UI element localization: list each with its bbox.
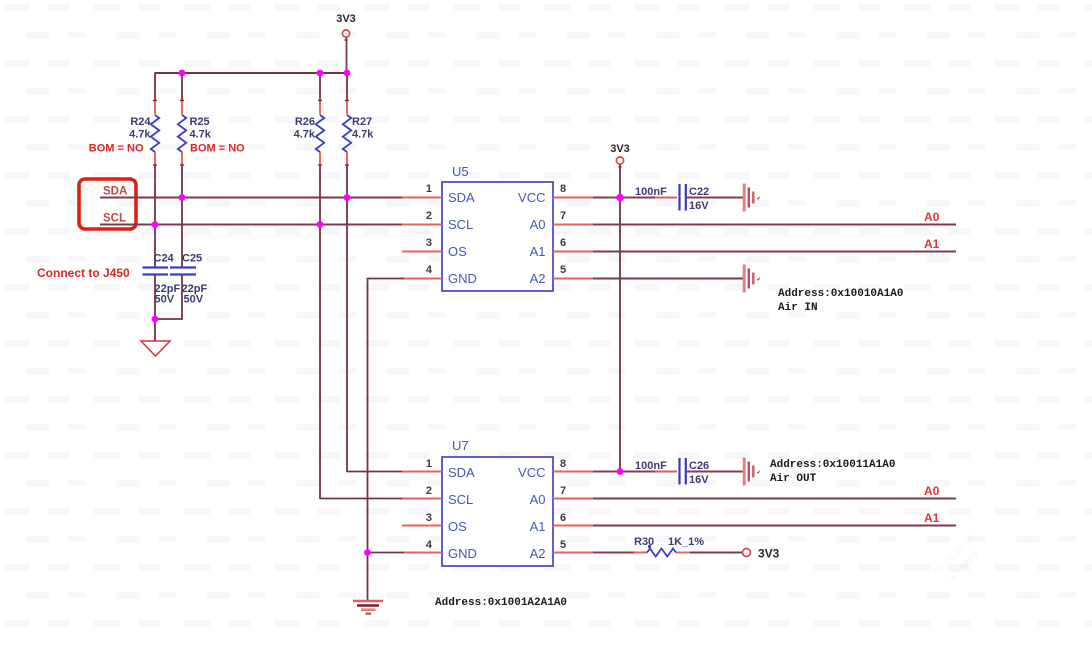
svg-text:A0: A0 — [530, 492, 546, 507]
wire SDA — [100, 197, 402, 199]
wire R25 to SDA — [181, 165, 183, 197]
ground triangle — [141, 341, 170, 356]
svg-text:1: 1 — [426, 458, 432, 470]
pin 4 U7 — [402, 539, 442, 553]
svg-text:Address:0x1001A2A1A0: Address:0x1001A2A1A0 — [435, 597, 567, 609]
wire 3V3 rail vertical — [619, 165, 621, 473]
pin 7 U5 — [553, 210, 593, 225]
svg-text:C25: C25 — [182, 253, 202, 265]
resistor R26 — [294, 101, 325, 166]
node junction SCL R26 — [317, 221, 324, 228]
pin 5 U5 — [553, 264, 593, 279]
svg-text:VCC: VCC — [518, 465, 545, 480]
svg-text:R26: R26 — [295, 116, 315, 128]
wire C24 bottom — [154, 275, 156, 341]
wire U5 GND down — [368, 279, 405, 554]
wire R26 to SCL — [319, 165, 321, 224]
svg-text:3: 3 — [426, 512, 432, 524]
node junction SDA R25 — [179, 194, 186, 201]
node junction U5 VCC 3V3 — [615, 193, 625, 203]
pin 2 U5 — [402, 210, 442, 225]
wire C22 to ground — [687, 197, 743, 199]
wire SCL — [100, 224, 402, 226]
watermark faint — [933, 532, 987, 586]
svg-text:A0: A0 — [530, 217, 546, 232]
svg-text:SDA: SDA — [448, 190, 475, 205]
wire C26 to ground — [687, 471, 743, 473]
pin 8 U5 — [553, 183, 593, 198]
op-amp U7 (I2C temp sensor) — [442, 438, 553, 566]
svg-text:R30: R30 — [634, 536, 654, 548]
svg-text:C22: C22 — [689, 186, 709, 198]
pin 6 U7 — [553, 512, 593, 526]
ground earth bottom — [353, 601, 383, 614]
svg-text:A0: A0 — [924, 484, 940, 498]
svg-text:16V: 16V — [689, 200, 709, 212]
wire U7 A0 — [593, 498, 956, 500]
svg-text:8: 8 — [560, 183, 566, 195]
wire top bus — [155, 72, 348, 74]
svg-text:100nF: 100nF — [635, 460, 667, 472]
power 3V3 mid — [610, 143, 630, 167]
svg-text:6: 6 — [560, 512, 566, 524]
svg-text:4.7k: 4.7k — [352, 129, 374, 141]
wire GND down to earth — [367, 553, 369, 602]
wire R24 column upper — [154, 73, 156, 101]
wire R26 column upper — [319, 73, 321, 101]
svg-text:R27: R27 — [352, 116, 372, 128]
svg-text:SDA: SDA — [448, 465, 475, 480]
svg-text:2: 2 — [426, 485, 432, 497]
svg-text:U7: U7 — [452, 438, 469, 453]
wire U7 A2 to R30 — [593, 552, 647, 554]
pin 1 U7 — [402, 458, 442, 472]
wire U7 SDA from R27 column — [347, 471, 402, 473]
wire U5 A2 to ground — [593, 278, 743, 280]
svg-text:6: 6 — [560, 237, 566, 249]
pin 3 U7 — [402, 512, 442, 526]
op-amp U5 (I2C temp sensor) — [442, 164, 553, 291]
wire U7 VCC to C26 — [593, 471, 677, 473]
resistor R30 — [634, 536, 704, 557]
node junction U7 VCC 3V3 — [617, 468, 624, 475]
svg-text:BOM = NO: BOM = NO — [89, 143, 144, 155]
svg-text:U5: U5 — [452, 164, 469, 179]
svg-text:5: 5 — [560, 264, 566, 276]
pin 2 U7 — [402, 485, 442, 499]
svg-text:SCL: SCL — [448, 492, 473, 507]
pin 3 U5 — [402, 237, 442, 252]
wire U7 GND stub — [368, 552, 405, 554]
svg-text:A1: A1 — [530, 244, 546, 259]
ground (sideways) at C26 — [744, 458, 760, 486]
svg-text:4.7k: 4.7k — [129, 129, 151, 141]
svg-text:50V: 50V — [184, 294, 204, 306]
svg-text:4: 4 — [426, 539, 433, 551]
svg-text:3V3: 3V3 — [336, 13, 356, 25]
svg-text:GND: GND — [448, 546, 477, 561]
wire U5 VCC to C22 — [593, 197, 677, 199]
ground (sideways) at C22 — [744, 184, 760, 212]
svg-text:GND: GND — [448, 271, 477, 286]
svg-text:A1: A1 — [924, 237, 940, 251]
svg-text:A1: A1 — [924, 511, 940, 525]
svg-text:C24: C24 — [154, 253, 175, 265]
svg-text:R25: R25 — [190, 116, 210, 128]
svg-text:SCL: SCL — [448, 217, 473, 232]
svg-text:4.7k: 4.7k — [294, 129, 316, 141]
power 3V3 at R30 — [743, 547, 780, 561]
pin 1 U5 — [402, 183, 442, 198]
capacitor C26 — [635, 458, 709, 486]
port box SDA/SCL — [79, 179, 136, 229]
node junction SCL R24 — [152, 221, 159, 228]
wire SDA to C25 — [181, 197, 183, 267]
svg-text:A2: A2 — [530, 546, 546, 561]
svg-text:8: 8 — [560, 458, 566, 470]
svg-text:A0: A0 — [924, 210, 940, 224]
wire R27 to U7 SDA — [346, 197, 348, 472]
node junction caps to ground — [152, 316, 159, 323]
svg-text:SCL: SCL — [103, 213, 126, 225]
svg-text:Connect to J450: Connect to J450 — [37, 266, 130, 280]
wire R26 to U7 SCL — [319, 224, 321, 499]
svg-text:16V: 16V — [689, 474, 709, 486]
resistor R24 — [129, 101, 159, 166]
wire SCL to C24 — [154, 224, 156, 267]
svg-text:A2: A2 — [530, 271, 546, 286]
pin 4 U5 — [402, 264, 442, 279]
svg-text:50V: 50V — [155, 294, 175, 306]
capacitor C25 — [170, 253, 207, 306]
wire U7 SCL from R26 column — [320, 498, 402, 500]
svg-text:OS: OS — [448, 519, 467, 534]
svg-text:3: 3 — [426, 237, 432, 249]
wire R27 column upper — [346, 73, 348, 101]
svg-text:BOM = NO: BOM = NO — [190, 143, 245, 155]
wire 3V3 to bus — [346, 38, 348, 74]
node junction SDA R27 — [344, 194, 351, 201]
pin 6 U5 — [553, 237, 593, 252]
svg-text:3V3: 3V3 — [758, 547, 780, 561]
svg-text:C26: C26 — [689, 460, 709, 472]
power 3V3 top — [336, 13, 356, 40]
svg-text:SDA: SDA — [103, 186, 127, 198]
node junction top bus R27 — [344, 70, 351, 77]
wire U7 A1 — [593, 525, 956, 527]
node junction U7 GND — [364, 549, 371, 556]
svg-text:VCC: VCC — [518, 190, 545, 205]
wire R27 to SDA — [346, 165, 348, 197]
wire R25 column upper — [181, 73, 183, 101]
capacitor C24 — [143, 253, 181, 306]
pin 7 U7 — [553, 485, 593, 499]
wire R30 to 3V3 — [690, 552, 742, 554]
svg-text:7: 7 — [560, 485, 566, 497]
svg-text:R24: R24 — [130, 116, 151, 128]
resistor R25 — [178, 101, 212, 166]
wire C25 bottom — [155, 275, 182, 319]
resistor R27 — [343, 101, 374, 166]
pin 5 U7 — [553, 539, 593, 553]
svg-text:7: 7 — [560, 210, 566, 222]
svg-text:4: 4 — [426, 264, 433, 276]
svg-text:3V3: 3V3 — [610, 143, 630, 155]
svg-text:4.7k: 4.7k — [190, 129, 212, 141]
pin 8 U7 — [553, 458, 593, 472]
svg-text:2: 2 — [426, 210, 432, 222]
svg-text:Air IN: Air IN — [778, 302, 818, 314]
node junction top bus R26 — [317, 70, 324, 77]
ground (sideways) at U5 A2 — [744, 265, 760, 293]
svg-text:Address:0x10010A1A0: Address:0x10010A1A0 — [778, 288, 903, 300]
svg-text:5: 5 — [560, 539, 566, 551]
svg-text:100nF: 100nF — [635, 186, 667, 198]
wire R24 to SCL — [154, 165, 156, 224]
svg-text:A1: A1 — [530, 519, 546, 534]
svg-text:Air OUT: Air OUT — [770, 473, 817, 485]
svg-text:1K_1%: 1K_1% — [668, 536, 704, 548]
capacitor C22 — [635, 184, 709, 212]
wire U5 A0 — [593, 224, 956, 226]
node junction top bus R25 — [179, 70, 186, 77]
svg-text:OS: OS — [448, 244, 467, 259]
wire U5 A1 — [593, 251, 956, 253]
svg-text:Address:0x10011A1A0: Address:0x10011A1A0 — [770, 459, 895, 471]
svg-text:1: 1 — [426, 183, 432, 195]
